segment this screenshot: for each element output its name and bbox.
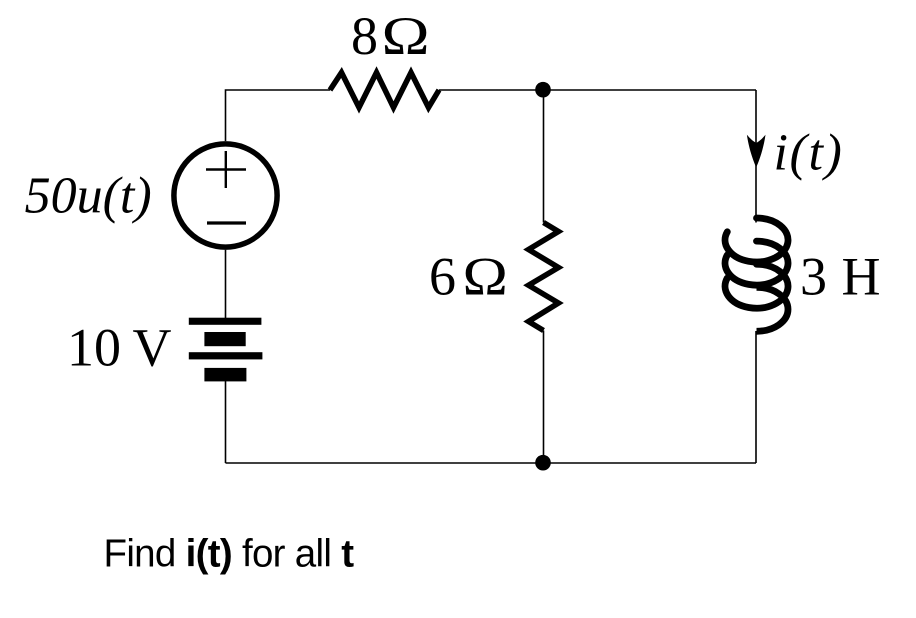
svg-text:V: V: [133, 318, 172, 378]
svg-text:Ω: Ω: [463, 248, 508, 307]
svg-text:i(t): i(t): [774, 125, 844, 182]
svg-text:3: 3: [800, 246, 827, 306]
svg-text:50u(t): 50u(t): [25, 167, 152, 224]
svg-text:10: 10: [67, 318, 121, 378]
svg-text:6: 6: [429, 247, 456, 307]
svg-text:H: H: [842, 246, 881, 306]
svg-text:Find i(t) for all t: Find i(t) for all t: [104, 533, 355, 576]
svg-text:Ω: Ω: [382, 6, 430, 66]
svg-text:8: 8: [351, 6, 378, 66]
